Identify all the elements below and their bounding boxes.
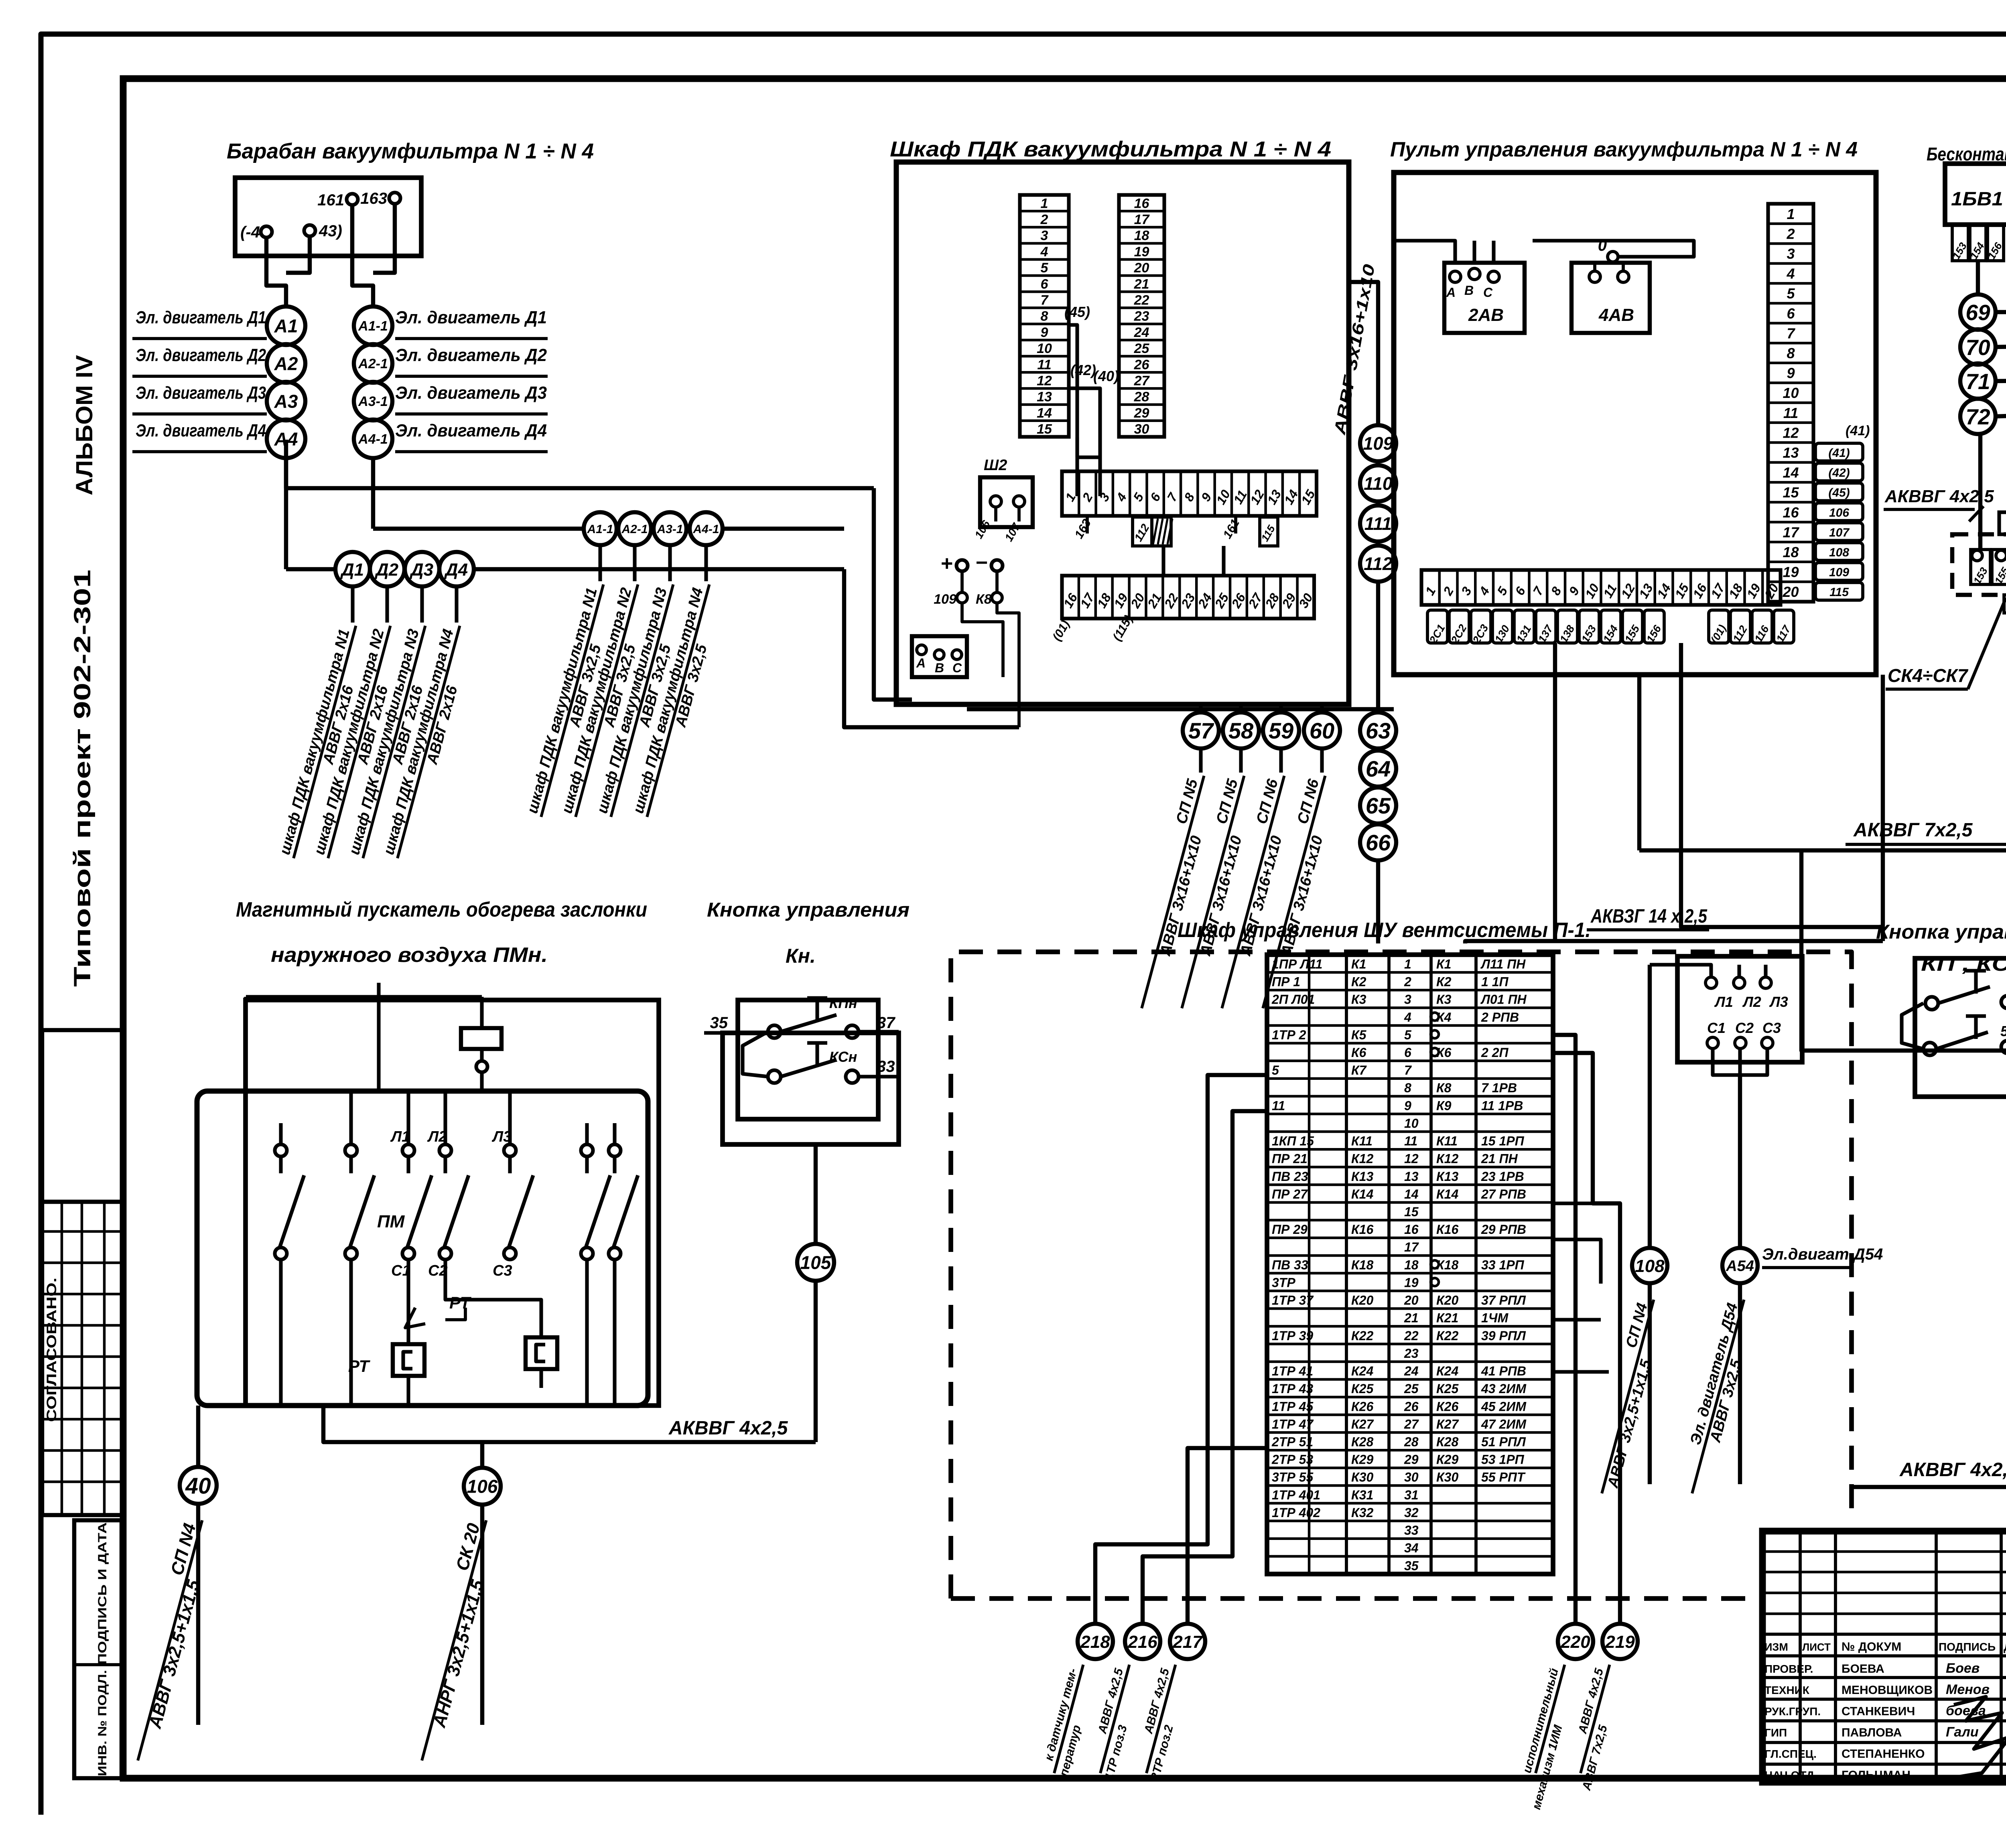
svg-text:К3: К3 [1351, 992, 1366, 1007]
svg-text:ПР 21: ПР 21 [1272, 1152, 1308, 1166]
svg-text:БОЕВА: БОЕВА [1842, 1662, 1884, 1676]
svg-text:11: 11 [1404, 1134, 1417, 1148]
wire 71-77 [1996, 380, 2006, 381]
svg-text:17: 17 [1783, 524, 1799, 540]
svg-text:2 РПВ: 2 РПВ [1481, 1010, 1519, 1024]
svg-text:10: 10 [1783, 385, 1799, 401]
svg-text:66: 66 [1366, 830, 1391, 855]
svg-text:СТАНКЕВИЧ: СТАНКЕВИЧ [1842, 1705, 1915, 1718]
svg-text:163: 163 [360, 190, 387, 207]
svg-text:(42): (42) [1070, 362, 1096, 378]
wire between vertical strips and lower strips [1077, 437, 1100, 457]
left stamp empty box [42, 1030, 124, 1202]
cable tag SP N4 bottom [118, 1515, 219, 1765]
svg-text:Л1: Л1 [1714, 994, 1733, 1010]
svg-text:В: В [1464, 283, 1474, 298]
svg-text:59: 59 [1269, 718, 1293, 743]
node D1 [335, 552, 370, 586]
svg-text:СК4÷СК7: СК4÷СК7 [1888, 665, 1969, 686]
svg-text:19: 19 [1134, 244, 1149, 260]
SK4 cluster tags [1971, 550, 1990, 584]
node А4 [267, 420, 305, 458]
contact at 1018 [402, 1144, 414, 1156]
svg-text:А4-1: А4-1 [692, 523, 719, 536]
svg-text:К22: К22 [1351, 1329, 1373, 1343]
svg-text:21: 21 [1404, 1311, 1419, 1325]
svg-text:К24: К24 [1436, 1364, 1458, 1378]
title block outline [1762, 1531, 2006, 1782]
wire 106 down [480, 1505, 484, 1725]
cable tags under 220 219 [1512, 1661, 1580, 1811]
contact upper stubs [279, 1123, 282, 1144]
svg-text:9: 9 [1041, 325, 1048, 340]
svg-text:ПОДПИСЬ И ДАТА: ПОДПИСЬ И ДАТА [96, 1522, 109, 1665]
svg-text:(42): (42) [1828, 467, 1850, 480]
wire pult bottom to 14x2.5 drop [1881, 675, 1885, 941]
Pult box [1394, 172, 1876, 675]
svg-text:10: 10 [1404, 1116, 1419, 1130]
svg-text:3: 3 [1404, 992, 1411, 1007]
svg-text:12: 12 [1037, 373, 1052, 389]
cable tags under 218 216 217 [1040, 1661, 1099, 1778]
svg-text:15: 15 [1783, 484, 1799, 501]
svg-text:К5: К5 [1351, 1028, 1367, 1042]
svg-text:К20: К20 [1436, 1293, 1458, 1308]
node А4-1 [354, 420, 392, 458]
svg-text:С2: С2 [1735, 1020, 1754, 1036]
Kn button KSn [768, 1070, 781, 1083]
wire 1BV1 down [1976, 261, 1980, 294]
bus A-1 row continues to riser [723, 527, 844, 531]
Pult bottom strip 1-20 [1421, 570, 1781, 605]
title block left table [1799, 1531, 1802, 1782]
svg-text:20: 20 [1404, 1293, 1419, 1308]
svg-text:40: 40 [185, 1473, 211, 1499]
svg-text:Кнопка управления: Кнопка управления [707, 899, 910, 921]
svg-text:ЛИСТ: ЛИСТ [1802, 1641, 1831, 1653]
svg-text:58: 58 [1228, 718, 1254, 743]
svg-text:4АВ: 4АВ [1598, 305, 1634, 325]
svg-text:К25: К25 [1436, 1381, 1459, 1396]
wire AKVVG4 horizontal [1852, 1485, 2006, 1489]
svg-text:7: 7 [1404, 1063, 1412, 1077]
svg-text:К3: К3 [1436, 992, 1452, 1007]
svg-text:В: В [935, 661, 944, 675]
svg-text:Д3: Д3 [409, 560, 433, 580]
node 216 [1125, 1624, 1160, 1659]
wires from plus minus down [960, 571, 964, 592]
svg-text:Эл. двигатель Д3: Эл. двигатель Д3 [136, 383, 266, 403]
svg-text:(41): (41) [1828, 446, 1850, 460]
ShU L1L2L3 box [1677, 956, 1802, 1062]
svg-text:20: 20 [1134, 260, 1149, 276]
svg-text:108: 108 [1635, 1256, 1665, 1276]
svg-text:1: 1 [1041, 196, 1048, 211]
node 111 [1360, 505, 1396, 542]
node A1-1b [584, 512, 617, 545]
svg-text:ГЛ.СПЕЦ.: ГЛ.СПЕЦ. [1764, 1748, 1817, 1760]
svg-text:55 РПТ: 55 РПТ [1481, 1470, 1526, 1485]
wire riser 109-112 down [1376, 582, 1380, 712]
svg-text:1ЧМ: 1ЧМ [1481, 1311, 1509, 1325]
cable tag SK20 [402, 1515, 503, 1765]
wire 105 down to bus [814, 1281, 818, 1442]
svg-text:217: 217 [1172, 1632, 1203, 1652]
wire pult bottom to AKVVG7 line [1637, 675, 1641, 850]
svg-text:К8: К8 [1436, 1081, 1452, 1095]
svg-text:109: 109 [934, 592, 956, 607]
svg-text:С3: С3 [1762, 1020, 1781, 1036]
MP outer enclosure [246, 1000, 659, 1406]
wire L1 box bottom to A54 [1713, 1049, 1767, 1075]
svg-text:1: 1 [1787, 206, 1795, 222]
svg-text:К28: К28 [1351, 1434, 1373, 1449]
svg-text:2АВ: 2АВ [1468, 305, 1504, 325]
svg-text:К27: К27 [1436, 1417, 1459, 1431]
svg-text:4: 4 [1786, 266, 1795, 282]
svg-text:С3: С3 [493, 1262, 512, 1279]
Kn inner box [738, 1000, 878, 1119]
svg-text:112: 112 [1364, 554, 1393, 574]
svg-text:3: 3 [1041, 228, 1048, 243]
svg-text:СОГЛАСОВАНО.: СОГЛАСОВАНО. [44, 1278, 59, 1422]
KP button top [1925, 997, 1938, 1010]
wire into L1 box [1650, 965, 1711, 977]
svg-text:109: 109 [1829, 566, 1849, 579]
svg-text:А3: А3 [274, 391, 298, 412]
svg-text:12: 12 [1783, 424, 1799, 441]
svg-text:13: 13 [1783, 444, 1799, 461]
svg-text:А2: А2 [274, 353, 298, 374]
upper bus from motor columns [286, 458, 874, 488]
svg-text:1ТР 47: 1ТР 47 [1272, 1417, 1314, 1431]
node 218 [1078, 1624, 1113, 1659]
svg-text:21 ПН: 21 ПН [1481, 1152, 1518, 1166]
svg-text:8: 8 [1404, 1081, 1411, 1095]
svg-text:Менов: Менов [1946, 1682, 1990, 1697]
svg-text:А2-1: А2-1 [358, 356, 388, 371]
wire 40 up [196, 1406, 200, 1468]
svg-text:11: 11 [1783, 405, 1798, 421]
cable AKVVG 10x2.5 wire [1801, 770, 2006, 1051]
svg-text:1ТР 45: 1ТР 45 [1272, 1399, 1314, 1414]
wire pult tag to 14x2.5 line [1553, 643, 1557, 941]
svg-text:41 РПВ: 41 РПВ [1481, 1364, 1526, 1378]
svg-text:(40): (40) [1093, 368, 1119, 384]
KP left bracket [1902, 1003, 1923, 1049]
node D3 [405, 552, 439, 586]
RT heater left [393, 1344, 424, 1376]
svg-text:Эл. двигатель Д1: Эл. двигатель Д1 [395, 308, 547, 327]
svg-text:31: 31 [1404, 1488, 1419, 1502]
bus after D4 to riser [474, 567, 844, 571]
svg-text:161: 161 [317, 191, 344, 209]
box 1BV1 [1945, 164, 2006, 225]
svg-text:3: 3 [1787, 245, 1795, 262]
svg-text:71: 71 [1965, 369, 1990, 394]
svg-text:ТЕХНИК: ТЕХНИК [1764, 1684, 1810, 1696]
RT heater right [526, 1337, 557, 1369]
svg-text:7 1РВ: 7 1РВ [1481, 1081, 1517, 1095]
svg-text:2ТР 53: 2ТР 53 [1271, 1452, 1313, 1467]
svg-text:2: 2 [1786, 225, 1795, 242]
svg-text:+: + [941, 552, 953, 575]
svg-text:29: 29 [1134, 406, 1149, 421]
svg-text:Л11 ПН: Л11 ПН [1480, 957, 1526, 971]
contact at 875 [345, 1144, 357, 1156]
PDK vertical strip 16-30 [1119, 195, 1164, 437]
svg-text:Эл. двигатель Д4: Эл. двигатель Д4 [136, 421, 266, 440]
node А3-1 [354, 382, 392, 420]
svg-text:3ТР: 3ТР [1272, 1275, 1295, 1290]
svg-text:5: 5 [1787, 285, 1795, 302]
svg-text:А: А [1446, 285, 1456, 300]
svg-text:13: 13 [1037, 389, 1052, 405]
svg-text:К30: К30 [1436, 1470, 1458, 1485]
svg-text:(41): (41) [1846, 423, 1870, 438]
svg-text:Шкаф управления ШУ вентсисте: Шкаф управления ШУ вентсистемы П-1. [1178, 919, 1591, 942]
svg-text:23: 23 [1404, 1346, 1419, 1361]
node А1-1 [354, 306, 392, 345]
svg-text:СТЕПАНЕНКО: СТЕПАНЕНКО [1842, 1747, 1925, 1761]
svg-text:Гали: Гали [1946, 1724, 1979, 1740]
svg-text:51 РПЛ: 51 РПЛ [1481, 1434, 1526, 1449]
node D2 [370, 552, 404, 586]
svg-text:2П Л01: 2П Л01 [1271, 992, 1315, 1007]
svg-text:8: 8 [1041, 309, 1048, 324]
wire drum left pair to motor column [266, 237, 286, 306]
svg-text:ГОЛЬЦМАН: ГОЛЬЦМАН [1842, 1769, 1911, 1782]
svg-text:Эл. двигатель Д2: Эл. двигатель Д2 [395, 345, 547, 365]
node 69 [1960, 294, 1996, 330]
svg-text:32: 32 [1404, 1505, 1419, 1520]
svg-text:39 РПЛ: 39 РПЛ [1481, 1329, 1526, 1343]
svg-text:Эл. двигатель Д4: Эл. двигатель Д4 [395, 421, 547, 440]
wire 108 riser [1648, 965, 1652, 1248]
svg-text:К30: К30 [1351, 1470, 1373, 1485]
svg-text:29: 29 [1404, 1452, 1419, 1467]
node 65 [1360, 787, 1396, 824]
svg-text:К16: К16 [1436, 1222, 1458, 1237]
svg-text:18: 18 [1783, 544, 1799, 560]
svg-text:К31: К31 [1351, 1488, 1373, 1502]
PDK cabinet box [896, 162, 1349, 704]
svg-text:23: 23 [1134, 309, 1149, 324]
svg-text:НАЧ ОТД: НАЧ ОТД [1764, 1769, 1814, 1781]
bus to D1-D4 cluster [286, 567, 335, 571]
wire lower strips connection [1161, 546, 1165, 576]
Kn button KPn [768, 1025, 781, 1038]
node А2 [267, 344, 305, 383]
MP bottom bus [323, 1406, 816, 1442]
PDK horizontal strip 16-30 [1062, 576, 1314, 619]
contact at 1532 [609, 1144, 621, 1156]
svg-text:1ТР 41: 1ТР 41 [1272, 1364, 1313, 1378]
svg-text:14: 14 [1783, 465, 1799, 481]
svg-text:АКВВГ 4х2,5: АКВВГ 4х2,5 [1884, 487, 1994, 506]
svg-text:5: 5 [2000, 1023, 2006, 1039]
svg-text:К2: К2 [1351, 975, 1366, 989]
svg-text:К27: К27 [1351, 1417, 1374, 1431]
svg-text:47 2ИМ: 47 2ИМ [1481, 1417, 1527, 1431]
svg-text:А: А [916, 656, 926, 670]
MP wire bus top [246, 995, 482, 998]
wire A54 down [1738, 1283, 1742, 1484]
svg-text:Ш2: Ш2 [984, 457, 1007, 474]
ShU left step wires [1095, 1075, 1267, 1623]
svg-text:Л01 ПН: Л01 ПН [1480, 992, 1527, 1007]
svg-text:69: 69 [1965, 300, 1990, 325]
Pult side tags [1815, 443, 1863, 461]
node А2-1 [354, 344, 392, 383]
svg-text:Эл.двигат Д54: Эл.двигат Д54 [1762, 1246, 1883, 1263]
svg-text:28: 28 [1404, 1434, 1419, 1449]
node 40 [180, 1467, 217, 1504]
svg-text:А3-1: А3-1 [656, 523, 683, 536]
svg-text:ПР 29: ПР 29 [1272, 1222, 1308, 1237]
svg-text:33: 33 [1404, 1523, 1419, 1538]
svg-text:С: С [952, 661, 962, 675]
svg-text:Боев: Боев [1946, 1661, 1980, 1676]
svg-text:К26: К26 [1351, 1399, 1373, 1414]
svg-text:24: 24 [1134, 325, 1149, 340]
svg-text:111: 111 [1364, 513, 1392, 534]
wires from 109 K8 down [962, 603, 1003, 677]
svg-text:19: 19 [1404, 1275, 1419, 1290]
svg-text:К9: К9 [1436, 1098, 1452, 1113]
svg-text:109: 109 [1363, 433, 1393, 454]
svg-text:1ТР 39: 1ТР 39 [1272, 1329, 1313, 1343]
Sh2 box [980, 477, 1033, 527]
wire 72-78 [1996, 414, 2006, 416]
node 70 [1960, 329, 1996, 365]
svg-text:15: 15 [1037, 422, 1052, 437]
svg-text:Пульт управления вакуумфильт: Пульт управления вакуумфильтра N 1 ÷ N 4 [1390, 138, 1858, 161]
svg-text:14: 14 [1404, 1187, 1419, 1201]
svg-text:9: 9 [1787, 365, 1795, 381]
cable tag SP N4 at 108 [1584, 1295, 1670, 1498]
svg-text:1 1П: 1 1П [1481, 975, 1509, 989]
cable AKVVG 7x2.5 wire [1639, 773, 2006, 850]
svg-text:К24: К24 [1351, 1364, 1373, 1378]
title block signature scribble [1954, 1697, 2006, 1777]
PDK horizontal strip 1-15 [1062, 471, 1317, 516]
svg-text:72: 72 [1965, 404, 1990, 429]
svg-text:К8: К8 [976, 592, 992, 607]
wire strip link 40 [1069, 388, 1100, 496]
PDK vertical strip 1-15 [1020, 195, 1069, 437]
SK4 cluster lower stubs [2004, 595, 2006, 613]
svg-text:17: 17 [1134, 212, 1150, 227]
svg-text:Магнитный пускатель обогрева: Магнитный пускатель обогрева заслонки [236, 898, 647, 921]
ShU table link circles [1431, 1012, 1439, 1020]
svg-text:№ ДОКУМ: № ДОКУМ [1842, 1640, 1901, 1653]
wire ABC to right [967, 707, 1394, 711]
wire 72 down to SK4 cluster [1978, 434, 1982, 550]
svg-text:26: 26 [1134, 357, 1150, 372]
drum box [235, 178, 421, 256]
svg-text:АКВВГ 7х2,5: АКВВГ 7х2,5 [1853, 820, 1973, 841]
svg-text:22: 22 [1404, 1329, 1419, 1343]
svg-text:16: 16 [1134, 196, 1150, 211]
cable tag at A54 [1675, 1295, 1760, 1498]
svg-text:К18: К18 [1351, 1258, 1373, 1272]
svg-text:(-4: (-4 [240, 223, 260, 241]
KP button bottom [1923, 1043, 1936, 1055]
svg-text:К6: К6 [1351, 1045, 1366, 1060]
MP internal wires to bottom [406, 1260, 410, 1344]
ABC box PDK [912, 636, 967, 677]
svg-text:43 2ИМ: 43 2ИМ [1481, 1381, 1527, 1396]
svg-text:27 РПВ: 27 РПВ [1481, 1187, 1526, 1201]
contact at 1110 [439, 1144, 451, 1156]
svg-text:7: 7 [1787, 325, 1795, 341]
wire Kn to 105 [814, 1144, 818, 1244]
svg-text:19: 19 [1783, 564, 1799, 580]
svg-text:К14: К14 [1436, 1187, 1458, 1201]
svg-text:27: 27 [1134, 373, 1150, 389]
wire A4-1 column down to bus [371, 458, 375, 529]
node 109 [1360, 425, 1396, 461]
node A54 [1722, 1248, 1758, 1283]
svg-text:С1: С1 [1707, 1020, 1726, 1036]
svg-text:А1-1: А1-1 [358, 318, 388, 334]
nodes 57-60 under PDK [1199, 704, 1202, 712]
svg-text:216: 216 [1127, 1632, 1157, 1652]
svg-text:ГИП: ГИП [1764, 1726, 1787, 1739]
svg-text:15: 15 [1404, 1205, 1419, 1219]
svg-text:23 1РВ: 23 1РВ [1481, 1169, 1524, 1184]
svg-text:30: 30 [1404, 1470, 1419, 1485]
svg-text:12: 12 [1404, 1152, 1419, 1166]
svg-text:105: 105 [800, 1252, 832, 1273]
node 64 [1360, 751, 1396, 787]
svg-text:1ТР 402: 1ТР 402 [1272, 1505, 1320, 1520]
svg-text:218: 218 [1080, 1632, 1110, 1652]
svg-text:К14: К14 [1351, 1187, 1373, 1201]
wire 108 down [1648, 1283, 1652, 1484]
svg-text:КПн: КПн [829, 995, 857, 1011]
wire 66 down to ShU [1376, 860, 1380, 943]
svg-text:21: 21 [1134, 276, 1149, 292]
svg-text:К32: К32 [1351, 1505, 1373, 1520]
svg-text:2 2П: 2 2П [1481, 1045, 1509, 1060]
node А3 [267, 382, 305, 420]
wire 0 to 4AB [1533, 241, 1694, 257]
contact at 700 [275, 1144, 287, 1156]
svg-text:А2-1: А2-1 [621, 523, 648, 536]
wire PDK right to pult riser [1349, 282, 1378, 425]
svg-text:Кнопка управления: Кнопка управления [1876, 921, 2006, 943]
svg-text:106: 106 [467, 1476, 498, 1497]
MP wire left vertical [244, 997, 248, 1091]
svg-text:16: 16 [1783, 504, 1799, 521]
cable tags under A1-1..A4-1 [598, 545, 602, 581]
svg-text:С: С [1483, 285, 1493, 300]
svg-text:108: 108 [1829, 546, 1849, 559]
svg-text:219: 219 [1605, 1632, 1635, 1652]
svg-text:18: 18 [1404, 1258, 1419, 1272]
svg-text:К1: К1 [1351, 957, 1366, 971]
svg-text:7: 7 [1041, 293, 1049, 308]
wire 69-75 [1996, 310, 2006, 314]
svg-text:К11: К11 [1436, 1134, 1458, 1148]
svg-text:1ТР 37: 1ТР 37 [1272, 1293, 1314, 1308]
svg-text:1ТР 2: 1ТР 2 [1272, 1028, 1306, 1042]
svg-text:−: − [976, 551, 988, 574]
KP box [1915, 958, 2006, 1097]
svg-text:33 1РП: 33 1РП [1481, 1258, 1525, 1272]
